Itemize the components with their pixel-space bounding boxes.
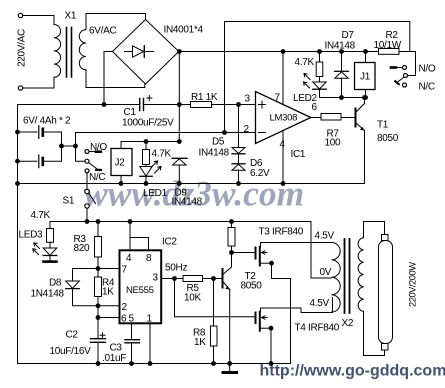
wire LED2/D7/J1 bottom bus — [320, 97, 365, 99]
svg-text:C3: C3 — [110, 343, 123, 354]
wire battery join to branch node — [62, 145, 76, 147]
wire secondary top to bridge — [86, 14, 146, 30]
wire T1 emitter down to mid rail — [364, 131, 366, 184]
wire mid rail y=183.5 — [18, 183, 365, 185]
LED3 — [49, 242, 51, 248]
resistor R5 10K — [183, 276, 203, 282]
wire pin6 to R7 — [311, 117, 321, 119]
wire T2 emitter to ground — [229, 290, 231, 364]
wire primary bottom — [23, 77, 54, 88]
wire base node to T2 — [214, 278, 222, 280]
transistor T1 8050 — [355, 109, 357, 127]
diode D9 IN4148 — [172, 157, 187, 159]
wire mid rail y=104.5 left of C1 — [18, 104, 140, 106]
svg-text:C1: C1 — [124, 107, 137, 118]
wire pin2 — [98, 305, 120, 307]
capacitor C3 .01uF — [125, 339, 140, 341]
node 50Hz — [172, 276, 177, 281]
svg-text:LED1: LED1 — [143, 188, 168, 199]
battery cell 1 — [18, 131, 38, 133]
op-amp minus sign — [259, 132, 266, 134]
wire bridge right corner vertical down through D9 node — [178, 52, 180, 142]
relay J2 contact N/O — [85, 150, 89, 154]
svg-text:N/C: N/C — [419, 82, 435, 93]
wire S1 down to NE555 rail — [86, 208, 88, 221]
wire top feedback rail — [225, 22, 410, 133]
svg-text:0V: 0V — [320, 267, 332, 278]
svg-text:1000uF/25V: 1000uF/25V — [122, 118, 174, 129]
capacitor C1 1000uF/25V — [139, 99, 141, 111]
relay J1 contact N/C — [403, 83, 407, 87]
resistor R4 1K — [95, 277, 102, 297]
node J1 bottom — [363, 95, 368, 100]
relay coil J1 — [355, 63, 376, 90]
wire line B J2 top feed — [121, 142, 179, 149]
wire NE555 V+ rail y=221.5 — [50, 222, 332, 279]
svg-text:LED2: LED2 — [293, 93, 318, 104]
diode D5 IN4148 — [238, 105, 240, 148]
LED1 arrows — [151, 161, 158, 168]
node pin7 junction — [96, 266, 101, 271]
transformer X1 primary terminal bottom — [18, 86, 22, 90]
wire T4 source to ground rail — [270, 328, 272, 363]
LED3 ground bar — [44, 260, 57, 263]
transformer X2 secondary winding — [358, 238, 363, 312]
wire pin 3 out — [162, 278, 184, 280]
node R6 top — [229, 219, 234, 224]
fluorescent tube body — [379, 241, 393, 344]
svg-text:2: 2 — [122, 302, 128, 313]
svg-text:220V/AC: 220V/AC — [17, 29, 28, 67]
node LED1 bottom — [144, 181, 149, 186]
node 4.7K top — [144, 139, 149, 144]
wire X2 secondary bottom to tube — [364, 311, 385, 355]
wire sense line to op-amp pin2 — [76, 132, 256, 134]
svg-text:X2: X2 — [342, 318, 354, 329]
transformer X1 primary winding — [54, 25, 61, 78]
resistor R8 1K — [213, 279, 215, 327]
relay J1 contact common — [404, 74, 408, 78]
svg-text:820: 820 — [74, 243, 91, 254]
wire raw DC plus rail y=51.5 — [179, 51, 378, 53]
svg-text:T1: T1 — [377, 120, 389, 131]
diode D8 1N4148 — [73, 269, 99, 282]
svg-text:C2: C2 — [66, 330, 79, 341]
resistor R3 820 — [97, 222, 99, 237]
svg-text:3: 3 — [245, 94, 251, 105]
wire pin2-pin6-C2 vertical — [97, 306, 99, 339]
node pin2 junction — [96, 303, 101, 308]
svg-text:IC1: IC1 — [291, 149, 306, 160]
svg-text:N/C: N/C — [89, 172, 105, 183]
LED2 — [319, 77, 321, 83]
node T1 collector on bus — [362, 95, 367, 100]
node T4 source — [269, 326, 274, 331]
svg-text:http://www.go-gddq.com: http://www.go-gddq.com — [260, 363, 445, 380]
transformer X2 primary winding — [332, 243, 341, 313]
node feedback join on pin2 line — [222, 130, 227, 135]
node 4.7K top on rail — [317, 49, 322, 54]
wire primary top — [23, 16, 54, 25]
node D7 top — [339, 49, 344, 54]
svg-text:10/1W: 10/1W — [374, 40, 402, 51]
relay coil J2 — [111, 149, 132, 176]
transformer X1 primary terminal top — [18, 13, 22, 17]
resistor R1 1K — [191, 102, 212, 108]
wire J2 bottom to mid rail — [120, 176, 122, 184]
svg-text:T4 IRF840: T4 IRF840 — [295, 323, 340, 334]
wire 555 pins 4+8 to rail — [130, 238, 149, 251]
svg-text:100: 100 — [325, 138, 342, 149]
svg-text:6.2V: 6.2V — [250, 168, 270, 179]
node 555 V+ on rail — [128, 219, 133, 224]
svg-text:D7: D7 — [342, 30, 355, 41]
svg-text:220V/200W: 220V/200W — [408, 262, 418, 307]
node T2 base / R8 — [211, 276, 216, 281]
node D6 bottom — [236, 181, 241, 186]
wire T3 gate line — [232, 252, 256, 254]
svg-text:IN4148: IN4148 — [172, 197, 203, 208]
resistor 4.7K (J2 branch) — [145, 142, 147, 150]
wire R5 to T2 base node — [203, 278, 214, 280]
node pin3 / D5 — [236, 102, 241, 107]
node D9 bottom — [177, 181, 182, 186]
svg-text:4.5V: 4.5V — [310, 298, 330, 309]
svg-text:1K: 1K — [194, 337, 206, 348]
node J1 top — [363, 49, 368, 54]
op-amp plus sign — [259, 101, 266, 108]
wire pin 4 to mid rail — [282, 131, 284, 184]
wire bridge left corner down to minus rail — [104, 52, 113, 105]
wire ground rail y=363.5 — [18, 279, 291, 364]
svg-text:6V/ 4Ah * 2: 6V/ 4Ah * 2 — [23, 116, 71, 127]
node battery cell2 left — [15, 159, 20, 164]
node C2 bottom — [96, 361, 101, 366]
node pin6 junction — [96, 315, 101, 320]
svg-text:IN4148: IN4148 — [199, 148, 230, 159]
svg-text:N/O: N/O — [419, 64, 436, 75]
transformer X1 secondary winding — [79, 30, 86, 70]
svg-text:10K: 10K — [184, 293, 202, 304]
LED1 — [145, 165, 147, 167]
node T4 source ground — [269, 361, 274, 366]
node R3 top — [96, 219, 101, 224]
tube top cap — [382, 235, 389, 241]
node T3 source — [269, 261, 274, 266]
wire J1 top pin — [365, 52, 367, 63]
wire left vertical bus x=17.5 — [17, 105, 19, 364]
svg-text:X1: X1 — [65, 11, 77, 22]
node battery join — [59, 144, 64, 149]
resistor 4.7K (LED2 branch) — [319, 52, 321, 63]
svg-text:D5: D5 — [212, 137, 225, 148]
relay J2 contact arm — [89, 163, 98, 170]
svg-text:N/O: N/O — [90, 142, 107, 153]
resistor R7 100 — [321, 114, 341, 121]
wire 50Hz to T4 gate — [175, 279, 256, 317]
node pin 4 on mid rail — [281, 181, 286, 186]
MOSFET T4 IRF840 — [255, 313, 257, 324]
svg-text:IN4001*4: IN4001*4 — [164, 25, 204, 36]
switch S1 — [85, 189, 89, 193]
wire T4 source — [261, 327, 272, 329]
diode D7 IN4148 — [341, 52, 343, 72]
svg-text:4: 4 — [126, 253, 132, 264]
relay J1 contact arm — [397, 77, 404, 83]
LED3 arrows — [34, 243, 40, 249]
svg-text:7: 7 — [275, 93, 281, 104]
wire T3 drain to 4.5V tap — [261, 242, 332, 244]
wire pin 7 to raw rail — [282, 52, 284, 105]
wire mid rail C1 to R1 — [144, 104, 191, 106]
wire N/C down to S1 (crosses mid rail) — [86, 173, 88, 190]
svg-text:4.7K: 4.7K — [152, 149, 172, 160]
node bridge plus top — [177, 49, 182, 54]
wire R7 to T1 base — [341, 117, 355, 119]
wire pin7 — [98, 268, 120, 270]
node J2 bottom — [119, 181, 124, 186]
svg-text:LED3: LED3 — [19, 230, 44, 241]
node D9 top — [177, 139, 182, 144]
MOSFET T3 IRF840 — [255, 248, 257, 259]
wire pin 5 to C3 — [131, 323, 133, 339]
svg-text:4.7K: 4.7K — [31, 210, 51, 221]
node bridge plus on mid rail — [177, 102, 182, 107]
svg-text:6V/AC: 6V/AC — [89, 26, 116, 37]
transformer X1 core — [66, 28, 68, 78]
resistor R6 (unlabelled) — [231, 222, 233, 228]
resistor 4.7K (LED3 branch) — [49, 222, 51, 229]
wire secondary bottom to bridge — [86, 70, 145, 88]
svg-text:D8: D8 — [49, 278, 62, 289]
node pin1 bottom — [148, 361, 153, 366]
svg-text:www.dz3w.com: www.dz3w.com — [84, 174, 304, 214]
wire branch node down to relay common — [76, 146, 85, 161]
svg-text:10uF/16V: 10uF/16V — [50, 346, 92, 357]
node bridge minus on rail — [102, 102, 107, 107]
bridge rectifier IN4001*4 diamond — [113, 20, 179, 85]
node battery cell1 left — [15, 130, 20, 135]
svg-text:J2: J2 — [115, 158, 126, 169]
svg-text:4.5V: 4.5V — [315, 231, 335, 242]
wire R1 to pin3 — [212, 104, 256, 106]
ground symbol — [229, 364, 231, 372]
wire T4 drain to 4.5V tap — [261, 298, 333, 313]
node mid rail left — [15, 181, 20, 186]
svg-text:7: 7 — [122, 265, 128, 276]
svg-text:50Hz: 50Hz — [165, 263, 187, 274]
node T2 emitter ground — [227, 361, 232, 366]
capacitor C2 10uF/16V — [91, 338, 106, 340]
wire branch node up to sense line — [75, 133, 77, 147]
svg-text:8: 8 — [146, 253, 152, 264]
svg-text:LM308: LM308 — [270, 113, 298, 124]
svg-text:6: 6 — [121, 314, 127, 325]
relay J2 contact N/C — [85, 169, 89, 173]
svg-text:IC2: IC2 — [162, 237, 177, 248]
wire T3 source — [261, 262, 272, 264]
svg-text:3: 3 — [153, 273, 159, 284]
tube bottom cap — [382, 344, 389, 351]
zener D6 6.2V — [238, 154, 240, 164]
transformer X2 core — [344, 239, 346, 313]
svg-text:R1 1K: R1 1K — [191, 92, 218, 103]
wire pin6 — [98, 317, 120, 319]
node C3 bottom — [129, 361, 134, 366]
relay J2 contact common — [85, 159, 89, 163]
wire X2 secondary top to tube — [364, 222, 385, 238]
wire J1 bottom pin — [365, 90, 367, 98]
svg-text:4.7K: 4.7K — [295, 57, 315, 68]
node battery branch — [73, 144, 78, 149]
svg-text:.01uF: .01uF — [102, 353, 126, 364]
wire R2 output to contacts — [399, 52, 416, 76]
svg-text:8050: 8050 — [377, 133, 399, 144]
svg-text:2: 2 — [244, 124, 250, 135]
wire T3 source to ground bus — [272, 263, 291, 278]
resistor R2 10/1W — [379, 49, 400, 55]
IC2 NE555 box — [120, 250, 162, 323]
relay J1 contact N/O — [391, 66, 396, 69]
node pin 7 on rail — [281, 49, 286, 54]
node D7 bottom — [339, 95, 344, 100]
op-amp U1 LM308 triangle — [256, 92, 311, 144]
svg-text:J1: J1 — [360, 72, 371, 83]
wire pin 1 to ground rail — [149, 323, 151, 363]
svg-text:8050: 8050 — [241, 281, 263, 292]
node R8 bottom — [211, 361, 216, 366]
svg-text:S1: S1 — [63, 196, 75, 207]
svg-text:NE555: NE555 — [126, 285, 154, 296]
svg-text:1K: 1K — [102, 287, 114, 298]
bridge inner diode — [125, 51, 133, 53]
LED2 arrows — [304, 74, 310, 80]
battery cell 2 — [18, 160, 38, 162]
transistor T2 8050 — [223, 253, 231, 275]
node S1 on rail — [85, 219, 90, 224]
svg-text:1N4148: 1N4148 — [31, 289, 65, 300]
svg-text:IN4148: IN4148 — [325, 41, 356, 52]
svg-text:T3 IRF840: T3 IRF840 — [259, 227, 304, 238]
node T2 collector / T3 gate — [229, 250, 234, 255]
